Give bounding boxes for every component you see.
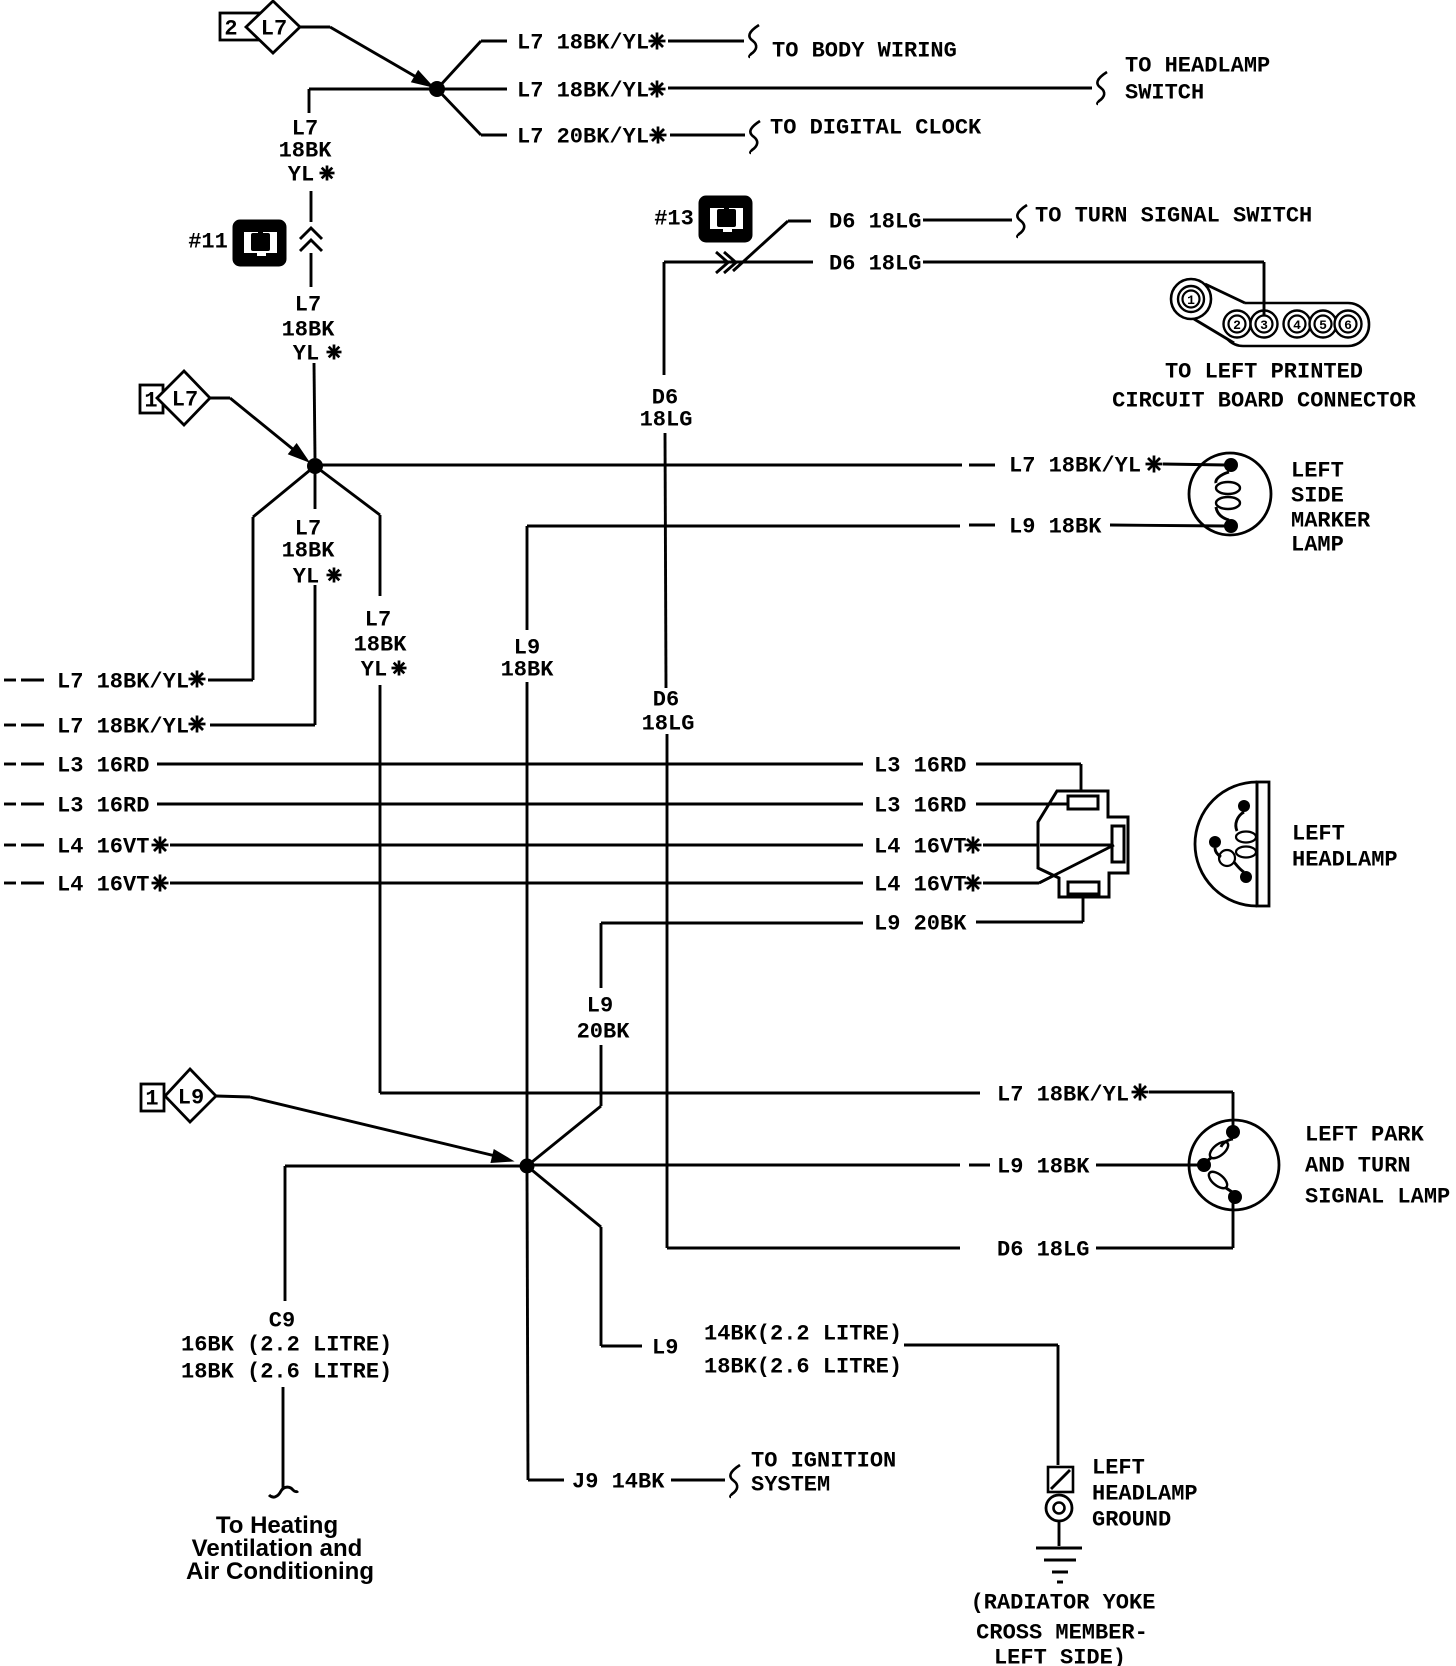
- svg-text:L7 18BK/YL: L7 18BK/YL: [57, 670, 189, 695]
- svg-text:SYSTEM: SYSTEM: [751, 1473, 830, 1498]
- connector tag 2-L7 diamond: [246, 1, 300, 53]
- arrowhead into junction C: [491, 1150, 513, 1163]
- wire to body-wiring squiggle: [668, 40, 744, 43]
- svg-text:6: 6: [1344, 318, 1352, 333]
- splice star (vertical label): [392, 667, 407, 670]
- svg-text:HEADLAMP: HEADLAMP: [1292, 848, 1398, 873]
- svg-text:D6: D6: [653, 688, 679, 713]
- wire L9 vertical to junction C: [526, 682, 529, 1159]
- wire junction A to body wiring label: [437, 41, 481, 89]
- svg-text:#11: #11: [188, 230, 228, 255]
- headlamp filaments: [1236, 812, 1244, 831]
- wire L9 label to side marker pin: [1110, 525, 1226, 526]
- junction A: [429, 81, 445, 97]
- svg-text:LEFT SIDE): LEFT SIDE): [994, 1646, 1126, 1666]
- wire L9 label to park lamp left pin: [1096, 1164, 1198, 1167]
- ground symbol bars: [1036, 1547, 1082, 1550]
- park/turn pin bottom: [1228, 1190, 1242, 1204]
- splice star (digital clock): [650, 134, 667, 137]
- wire L3 row A to connector top slot: [976, 763, 1081, 766]
- svg-text:YL: YL: [293, 342, 319, 367]
- splice star row 2: [189, 723, 206, 726]
- splice star row 1: [189, 678, 206, 681]
- svg-text:4: 4: [1293, 318, 1301, 333]
- svg-text:LAMP: LAMP: [1291, 533, 1344, 558]
- svg-text:Air Conditioning: Air Conditioning: [186, 1558, 374, 1585]
- svg-text:L7 20BK/YL: L7 20BK/YL: [517, 125, 649, 150]
- svg-text:LEFT: LEFT: [1092, 1456, 1145, 1481]
- svg-text:#13: #13: [654, 207, 694, 232]
- wire junction C to park lamp (L9 18BK): [527, 1164, 960, 1167]
- splice star row C right: [965, 844, 982, 847]
- connector tag 1-L7 diamond: [157, 371, 210, 425]
- svg-text:L4 16VT: L4 16VT: [57, 873, 149, 898]
- svg-text:YL: YL: [361, 658, 387, 683]
- wire junction C down-right to L9 engine harness: [527, 1166, 601, 1227]
- svg-text:18BK: 18BK: [354, 633, 408, 658]
- connector tag 1-L7 box: [140, 385, 163, 413]
- pcb connector pin 4: [1289, 316, 1306, 333]
- svg-text:16BK (2.2 LITRE): 16BK (2.2 LITRE): [181, 1333, 392, 1358]
- ground stem: [1058, 1521, 1061, 1546]
- wire junction B to side marker: [315, 464, 962, 467]
- svg-text:TO TURN SIGNAL SWITCH: TO TURN SIGNAL SWITCH: [1035, 204, 1312, 229]
- headlamp connector right slot: [1112, 826, 1124, 862]
- svg-text:GROUND: GROUND: [1092, 1508, 1171, 1533]
- park/turn pin top: [1226, 1125, 1240, 1139]
- in-line connector break chevrons: [300, 228, 322, 239]
- left printed circuit board connector outline: [1222, 303, 1369, 346]
- svg-text:TO LEFT PRINTED: TO LEFT PRINTED: [1165, 360, 1363, 385]
- svg-text:L7: L7: [172, 388, 198, 413]
- svg-text:SIDE: SIDE: [1291, 484, 1344, 509]
- svg-text:18BK: 18BK: [501, 658, 555, 683]
- svg-text:MARKER: MARKER: [1291, 509, 1371, 534]
- svg-text:2: 2: [224, 17, 237, 42]
- svg-text:18LG: 18LG: [642, 712, 695, 737]
- svg-text:TO DIGITAL CLOCK: TO DIGITAL CLOCK: [770, 116, 982, 141]
- junction B: [307, 458, 323, 474]
- splice star (upper label): [320, 172, 335, 175]
- wire junction C left to C9: [285, 1165, 527, 1168]
- wire D6 into pcb pin 3: [1263, 300, 1266, 317]
- pcb connector pin 6: [1340, 316, 1357, 333]
- headlamp pin top: [1238, 800, 1250, 812]
- off-page squiggle (turn signal): [1017, 205, 1027, 237]
- svg-text:D6 18LG: D6 18LG: [997, 1238, 1089, 1263]
- svg-text:L3 16RD: L3 16RD: [57, 754, 149, 779]
- wire star to side marker lamp: [1163, 464, 1226, 465]
- wire L4 row C to connector: [983, 844, 1112, 847]
- headlamp connector bottom slot: [1068, 882, 1099, 894]
- svg-text:D6 18LG: D6 18LG: [829, 252, 921, 277]
- arrowhead into junction B: [289, 444, 309, 462]
- svg-text:YL: YL: [288, 163, 314, 188]
- pcb connector pin 1: [1183, 291, 1200, 308]
- wire row L3 16RD y=764 with left dashes: [4, 763, 16, 766]
- ground eyelet ring: [1046, 1495, 1072, 1521]
- svg-text:L7 18BK/YL: L7 18BK/YL: [1009, 454, 1141, 479]
- wire row L4 16VT y=883 with left dashes: [4, 882, 16, 885]
- wire row L4 16VT y=845 with left dashes: [4, 844, 16, 847]
- side marker pin top: [1224, 458, 1238, 472]
- wire junction B to L7 vertical: [315, 466, 380, 515]
- connector tag 1-L9 diamond: [165, 1069, 216, 1122]
- svg-text:LEFT PARK: LEFT PARK: [1305, 1123, 1425, 1148]
- in-line connector break chevrons D6: [716, 252, 728, 273]
- off-page squiggle (ignition): [730, 1465, 740, 1497]
- arrowhead into junction A: [412, 71, 433, 87]
- wire to left row 2: [314, 585, 317, 725]
- splice star (side marker): [1146, 463, 1163, 466]
- svg-text:L7 18BK/YL: L7 18BK/YL: [57, 715, 189, 740]
- svg-text:TO IGNITION: TO IGNITION: [751, 1449, 896, 1474]
- svg-text:J9 14BK: J9 14BK: [572, 1470, 665, 1495]
- connector tag 1-L9 box: [141, 1084, 164, 1111]
- svg-text:3: 3: [1260, 318, 1268, 333]
- left headlamp flange: [1257, 782, 1269, 906]
- svg-text:L3 16RD: L3 16RD: [874, 794, 966, 819]
- svg-text:TO HEADLAMP: TO HEADLAMP: [1125, 54, 1270, 79]
- svg-text:SIGNAL LAMP: SIGNAL LAMP: [1305, 1185, 1450, 1210]
- svg-text:18BK: 18BK: [279, 139, 333, 164]
- svg-text:14BK(2.2 LITRE): 14BK(2.2 LITRE): [704, 1322, 902, 1347]
- svg-text:L7: L7: [261, 17, 287, 42]
- svg-text:2: 2: [1233, 318, 1241, 333]
- headlamp connector top slot: [1068, 796, 1098, 809]
- junction C: [520, 1159, 535, 1174]
- wire row L3 16RD y=804 with left dashes: [4, 803, 16, 806]
- wire D6 label to pcb pin 3: [923, 261, 1264, 264]
- wire D6 vertical middle: [665, 433, 666, 688]
- wire L7 between label and break: [310, 191, 313, 222]
- wire L9 20BK left segment: [601, 922, 863, 925]
- svg-text:L9 18BK: L9 18BK: [1009, 515, 1102, 540]
- wire D6 label to park lamp bottom pin: [1096, 1247, 1233, 1250]
- svg-text:1: 1: [1187, 293, 1195, 308]
- side marker pin bottom: [1224, 519, 1238, 533]
- wire star to park lamp top pin: [1149, 1091, 1233, 1094]
- splice star (park lamp): [1132, 1091, 1149, 1094]
- pcb connector pin 5: [1315, 316, 1332, 333]
- headlamp pin left: [1209, 836, 1221, 848]
- wire C9 down to HVAC: [282, 1387, 285, 1488]
- svg-text:C9: C9: [269, 1309, 295, 1334]
- svg-text:D6 18LG: D6 18LG: [829, 210, 921, 235]
- svg-text:L7 18BK/YL: L7 18BK/YL: [517, 79, 649, 104]
- pcb connector pin 3: [1256, 316, 1273, 333]
- wire junction B to left row 1: [253, 466, 315, 517]
- pcb connector pin 2: [1229, 316, 1246, 333]
- svg-text:L7 18BK/YL: L7 18BK/YL: [517, 31, 649, 56]
- headlamp connector outline: [1038, 791, 1128, 897]
- park/turn pin left: [1197, 1158, 1211, 1172]
- svg-text:TO BODY WIRING: TO BODY WIRING: [772, 39, 957, 64]
- wire junction A to headlamp switch: [309, 88, 507, 91]
- svg-text:L7: L7: [295, 293, 321, 318]
- svg-text:SWITCH: SWITCH: [1125, 81, 1204, 106]
- svg-text:L7 18BK/YL: L7 18BK/YL: [997, 1083, 1129, 1108]
- off-page squiggle (body wiring): [749, 25, 759, 57]
- connector tag 2-L7 box: [220, 13, 260, 40]
- svg-text:L4 16VT: L4 16VT: [57, 835, 149, 860]
- off-page squiggle (headlamp switch): [1097, 72, 1107, 104]
- svg-text:LEFT: LEFT: [1292, 822, 1345, 847]
- svg-text:18BK: 18BK: [282, 318, 336, 343]
- svg-text:20BK: 20BK: [577, 1020, 631, 1045]
- svg-text:5: 5: [1319, 318, 1327, 333]
- wire junction B down: [314, 466, 317, 509]
- wire to digital-clock squiggle: [670, 134, 745, 137]
- svg-text:L3 16RD: L3 16RD: [874, 754, 966, 779]
- wire L4 row C inside connector: [1040, 844, 1112, 847]
- svg-text:1: 1: [145, 1087, 158, 1112]
- svg-text:L9: L9: [652, 1336, 678, 1361]
- wire L4 row D diagonal to connector: [983, 882, 1039, 885]
- svg-text:18BK (2.6 LITRE): 18BK (2.6 LITRE): [181, 1360, 392, 1385]
- ground eyelet terminal: [1048, 1467, 1073, 1492]
- svg-text:CIRCUIT BOARD CONNECTOR: CIRCUIT BOARD CONNECTOR: [1112, 389, 1416, 414]
- wire L7 vertical to park lamp row: [379, 685, 382, 1093]
- splice star (body wiring): [649, 40, 666, 43]
- wire from 2-L7 to junction A: [300, 26, 330, 29]
- svg-text:L7: L7: [365, 608, 391, 633]
- wire L9 vertical upper: [526, 526, 529, 630]
- wire D6 top corner: [664, 261, 813, 264]
- wire to headlamp-switch squiggle: [668, 87, 1092, 90]
- park/turn lamp circle: [1189, 1120, 1279, 1210]
- wire D6 vertical lower: [666, 734, 669, 1248]
- left edge dashes row 1: [4, 679, 16, 682]
- connector #11 symbol: [233, 220, 286, 266]
- wire D6 vertical upper: [663, 262, 666, 375]
- svg-text:CROSS MEMBER-: CROSS MEMBER-: [976, 1621, 1148, 1646]
- wire L9 20BK vertical to junction C: [600, 1045, 603, 1106]
- park/turn filaments: [1221, 1139, 1233, 1147]
- splice star (lower label): [327, 351, 342, 354]
- svg-text:HEADLAMP: HEADLAMP: [1092, 1482, 1198, 1507]
- svg-text:L9: L9: [587, 994, 613, 1019]
- wire from 1-L9 to junction C: [216, 1096, 250, 1097]
- wire L9 20BK to connector bottom slot: [976, 921, 1083, 924]
- svg-text:18BK: 18BK: [282, 539, 336, 564]
- wire junction A down-leg upper: [308, 89, 311, 113]
- wire L3 row B into connector: [976, 803, 1066, 806]
- svg-text:L4 16VT: L4 16VT: [874, 835, 966, 860]
- wire L7 below break: [310, 253, 313, 287]
- svg-text:L9 20BK: L9 20BK: [874, 912, 967, 937]
- wire to turn-signal squiggle: [923, 219, 1012, 222]
- wire L4 row D diagonal inside connector: [1039, 845, 1114, 883]
- left edge dashes row 2: [4, 724, 16, 727]
- squiggle end (HVAC): [269, 1487, 298, 1497]
- wire L9 from side marker: [527, 525, 960, 528]
- side marker lamp circle: [1189, 453, 1271, 535]
- wire L7 into junction B: [314, 363, 315, 458]
- splice star (headlamp switch): [649, 88, 666, 91]
- wire L3 row B inside connector: [1040, 803, 1068, 806]
- svg-text:18BK(2.6 LITRE): 18BK(2.6 LITRE): [704, 1355, 902, 1380]
- svg-text:18LG: 18LG: [640, 408, 693, 433]
- wire from 1-L7 to junction B: [210, 397, 230, 400]
- svg-text:AND TURN: AND TURN: [1305, 1154, 1411, 1179]
- left headlamp semicircle: [1195, 782, 1257, 906]
- wire litre label to headlamp ground: [904, 1344, 1058, 1347]
- wire J9 label to squiggle: [671, 1479, 725, 1482]
- side marker filament: [1216, 472, 1229, 483]
- svg-text:L9: L9: [178, 1086, 204, 1111]
- connector #13 symbol: [699, 196, 752, 242]
- svg-text:(RADIATOR YOKE: (RADIATOR YOKE: [971, 1591, 1156, 1616]
- off-page squiggle (digital clock): [750, 121, 760, 153]
- wire junction A to digital clock: [437, 89, 481, 135]
- svg-text:L4 16VT: L4 16VT: [874, 873, 966, 898]
- svg-text:1: 1: [144, 389, 157, 414]
- headlamp pin bottom: [1240, 871, 1252, 883]
- svg-text:LEFT: LEFT: [1291, 459, 1344, 484]
- svg-text:L3 16RD: L3 16RD: [57, 794, 149, 819]
- wire junction C down to J9: [527, 1172, 528, 1480]
- splice star (below junction B): [327, 574, 342, 577]
- splice star row D right: [965, 882, 982, 885]
- wire L9 20BK vertical upper: [600, 923, 603, 988]
- wire D6 branch diagonal to turn signal: [733, 221, 788, 271]
- svg-text:L9 18BK: L9 18BK: [997, 1155, 1090, 1180]
